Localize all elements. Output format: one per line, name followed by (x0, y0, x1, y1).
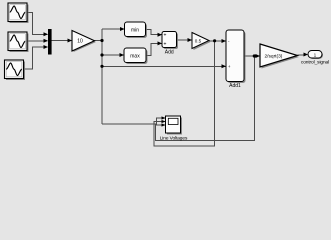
svg-text:0.5: 0.5 (195, 38, 202, 43)
svg-text:+: + (164, 33, 167, 39)
svg-text:2/sqrt(3): 2/sqrt(3) (265, 53, 283, 59)
svg-text:Add: Add (165, 50, 174, 56)
svg-text:+: + (164, 41, 167, 47)
svg-text:Line Voltages: Line Voltages (160, 136, 188, 142)
svg-text:Add1: Add1 (229, 83, 241, 89)
svg-text:control_signal: control_signal (301, 59, 329, 65)
svg-text:max: max (130, 53, 140, 59)
svg-text:10: 10 (77, 39, 83, 45)
svg-text:min: min (131, 27, 139, 33)
